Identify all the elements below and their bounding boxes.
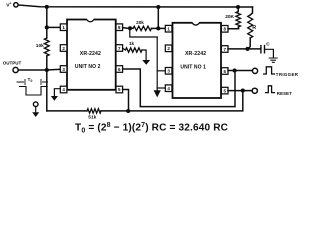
svg-text:R: R xyxy=(252,25,256,31)
wire bus stub unit1 pin3 xyxy=(157,70,165,72)
resistor 20K vertical xyxy=(236,12,241,28)
IC XR-2242 unit no 1 xyxy=(173,23,222,98)
node reset junction xyxy=(241,88,245,92)
node pin1 net junction xyxy=(156,26,160,30)
resistor 10k xyxy=(44,38,49,56)
pin 3 unit 2 xyxy=(60,66,67,73)
resistor 1k xyxy=(126,48,143,52)
svg-text:RESET: RESET xyxy=(277,91,292,96)
wire unit1 pin6 to trigger terminal xyxy=(228,70,252,72)
pin 7 unit 2 xyxy=(116,45,123,52)
node top rail 20K branch xyxy=(236,5,240,9)
terminal ground output xyxy=(33,102,38,107)
svg-text:20K: 20K xyxy=(225,14,234,20)
svg-text:XR-2242: XR-2242 xyxy=(185,51,206,57)
ground unit1 bus xyxy=(154,90,161,97)
wire unit1 pin7 to capacitor xyxy=(228,48,260,50)
wire V+ drop to pin1 net xyxy=(157,7,159,28)
wire unit1 pin8 stub xyxy=(228,27,239,29)
ground capacitor bars xyxy=(269,58,277,62)
node top rail 10k branch xyxy=(45,5,49,9)
wire bottom rail xyxy=(47,91,243,111)
resistor 20k horizontal xyxy=(133,26,152,30)
wire 10k to bottom rail xyxy=(46,56,48,111)
svg-text:UNIT NO 1: UNIT NO 1 xyxy=(180,64,206,70)
pin 5 unit 1 xyxy=(221,87,228,94)
resistor R xyxy=(248,15,253,38)
wire stub to unit2 pin 1 xyxy=(47,26,61,28)
node pin8 junction xyxy=(128,26,132,30)
notch unit 2 xyxy=(87,18,94,21)
svg-text:T0 = (28 − 1)(27) RC = 32.640: T0 = (28 − 1)(27) RC = 32.640 RC xyxy=(75,122,229,134)
pin 6 unit 2 xyxy=(116,66,123,73)
wire capacitor to ground xyxy=(265,49,274,57)
pulse glyph reset xyxy=(266,86,275,93)
wire 20k to unit1 pin1 xyxy=(152,27,166,29)
arrow marks T0 xyxy=(17,80,48,85)
wire unit1 pin5 to reset terminal xyxy=(228,90,252,92)
wire V+ top rail xyxy=(18,5,252,7)
pin 8 unit 1 xyxy=(221,26,228,33)
wire OUTPUT to unit2 pin 3 xyxy=(18,68,60,71)
wire terminal to ground xyxy=(35,107,37,113)
svg-text:OUTPUT: OUTPUT xyxy=(3,60,22,65)
pin 4 unit 2 xyxy=(60,86,67,93)
svg-text:1k: 1k xyxy=(129,41,135,46)
terminal TRIGGER xyxy=(252,68,257,73)
wire 20K top xyxy=(237,7,239,12)
svg-text:20k: 20k xyxy=(136,20,144,25)
wire V+ down to 10k xyxy=(46,7,48,38)
pin 2 unit 1 xyxy=(165,45,172,52)
node pin7 R junction xyxy=(245,47,249,51)
wire ground bus vertical xyxy=(156,37,158,90)
node trigger junction xyxy=(233,68,237,72)
pin 5 unit 2 xyxy=(116,86,123,93)
terminal V+ xyxy=(14,3,18,7)
wire pin8 branch to ground bus xyxy=(130,28,157,37)
ground output terminal xyxy=(32,112,39,117)
ground unit2 pin4 xyxy=(51,96,58,101)
pin 7 unit 1 xyxy=(221,46,228,53)
wire unit2 pin7 stub xyxy=(123,48,126,50)
wire unit2 pin8 stub xyxy=(123,27,133,30)
svg-text:51k: 51k xyxy=(88,115,96,121)
wire bus stub unit1 pin4 xyxy=(157,87,165,89)
pin 3 unit 1 xyxy=(165,68,172,75)
svg-text:10k: 10k xyxy=(36,43,44,49)
wire unit2 pin4 to ground xyxy=(54,89,60,96)
pulse glyph trigger xyxy=(264,67,275,74)
notch unit 1 xyxy=(192,22,199,25)
terminal RESET xyxy=(252,88,257,93)
terminal OUTPUT xyxy=(13,67,18,72)
IC XR-2242 unit no 2 xyxy=(67,20,116,90)
resistor 51k xyxy=(87,109,101,113)
pin 8 unit 2 xyxy=(116,24,123,31)
wire R bottom xyxy=(248,38,250,49)
pin 4 unit 1 xyxy=(165,85,172,92)
node output junction xyxy=(45,68,49,72)
svg-text:UNIT NO 2: UNIT NO 2 xyxy=(75,64,101,70)
node unit2 pin1 stub xyxy=(45,25,49,29)
wire rail corner to R xyxy=(250,7,252,15)
pin 2 unit 2 xyxy=(60,45,67,52)
wire unit2 pin5 to bottom rail xyxy=(123,90,129,111)
wire 1k to ground xyxy=(142,50,146,60)
waveform output pulse xyxy=(20,87,48,96)
svg-text:TRIGGER: TRIGGER xyxy=(276,72,299,77)
node top rail unit1 pin1 branch xyxy=(156,5,160,9)
pin 1 unit 1 xyxy=(165,25,172,32)
svg-text:XR-2242: XR-2242 xyxy=(80,51,101,57)
wire unit2 pin6 feedback to trigger line xyxy=(123,69,235,107)
ground 1k arrow xyxy=(142,60,150,65)
pin 1 unit 2 xyxy=(60,24,67,31)
pin 6 unit 1 xyxy=(221,68,228,75)
capacitor C xyxy=(261,46,265,53)
svg-text:C: C xyxy=(266,41,270,47)
node bottom rail pin5 xyxy=(126,109,130,113)
